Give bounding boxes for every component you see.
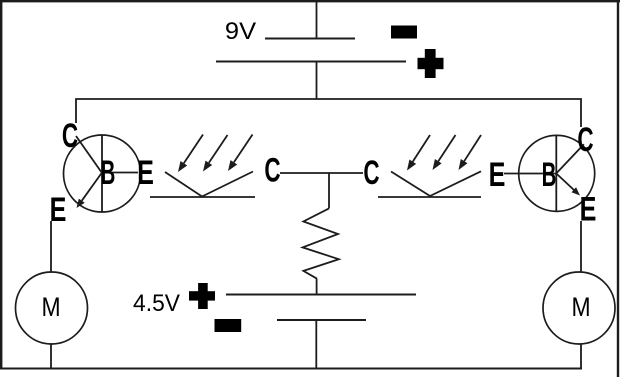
wire top border bus (0, 0, 620, 2)
wire collector bus (76, 99, 581, 127)
light arrow 3 shaft (234, 135, 253, 163)
svg-text:E: E (50, 191, 67, 229)
resistor R1 zigzag (303, 208, 339, 278)
resistor R1 top lead (328, 173, 330, 208)
transistor Q2 emitter arrow (572, 187, 581, 195)
transistor Q1 emitter arrow (77, 199, 85, 208)
battery B1 positive plate (216, 61, 406, 63)
light arrow 1 shaft (184, 135, 203, 164)
battery B2 positive plate (226, 294, 416, 296)
wire 9V top lead (316, 1, 318, 39)
transistor Q1 collector lead (76, 136, 102, 173)
wire node C to C (280, 172, 363, 174)
svg-text:M: M (41, 292, 60, 322)
resistor R1 bottom lead (316, 279, 318, 295)
svg-text:C: C (577, 121, 593, 159)
photosensor PS1 base line (150, 196, 255, 198)
wire right border (617, 0, 619, 377)
wire Q1 emitter to motor M1 (50, 221, 52, 273)
battery B1 minus mark (391, 26, 417, 39)
svg-text:M: M (571, 292, 590, 322)
svg-text:E: E (489, 156, 506, 194)
light arrow 6 head (459, 159, 468, 170)
battery B2 negative plate (277, 319, 366, 321)
svg-text:C: C (264, 152, 280, 190)
wire PS2 emitter lead (504, 173, 556, 175)
svg-text:B: B (101, 154, 116, 192)
motor M1 circle (16, 272, 88, 344)
battery B1 plus mark (418, 58, 444, 69)
transistor Q1 base lead (102, 172, 138, 174)
light arrow 3 head (228, 160, 237, 171)
light arrow 2 shaft (209, 135, 228, 163)
light arrow 2 head (203, 161, 212, 172)
light arrow 5 head (433, 159, 442, 170)
wire motor M2 to bottom (580, 344, 582, 369)
transistor Q1 emitter lead (82, 173, 102, 201)
svg-text:B: B (542, 156, 557, 194)
wire left border (0, 0, 2, 369)
transistor Q2 base bar (555, 136, 557, 212)
transistor Q1 circle (64, 135, 141, 212)
battery B2 minus mark (215, 319, 242, 332)
motor M2 circle (543, 272, 615, 344)
wire B2 bottom lead (315, 320, 317, 369)
wire Q2 emitter to motor M2 (580, 221, 582, 273)
battery B1 negative plate (265, 38, 355, 40)
wire motor M1 to bottom (50, 344, 52, 369)
wire bottom return (0, 368, 582, 370)
photosensor PS2 base line (378, 196, 481, 198)
light arrow 4 head (407, 160, 416, 171)
svg-text:E: E (137, 154, 154, 192)
light arrow 5 shaft (438, 135, 455, 161)
svg-text:E: E (580, 191, 597, 229)
wire 9V bottom lead (316, 62, 318, 100)
light arrow 4 shaft (413, 135, 430, 162)
light arrow 6 shaft (464, 135, 481, 161)
transistor Q2 collector lead (556, 144, 584, 173)
photosensor PS2 vee (391, 171, 481, 196)
transistor Q2 emitter lead (556, 174, 574, 191)
svg-text:C: C (363, 154, 379, 192)
transistor Q1 base bar (101, 135, 103, 212)
transistor Q2 circle (519, 135, 595, 211)
battery B2 plus mark (189, 291, 215, 300)
svg-text:4.5V: 4.5V (133, 289, 180, 316)
photosensor PS1 vee (165, 172, 253, 197)
svg-text:C: C (62, 117, 78, 155)
svg-text:9V: 9V (225, 17, 256, 44)
light arrow 1 head (178, 161, 187, 172)
